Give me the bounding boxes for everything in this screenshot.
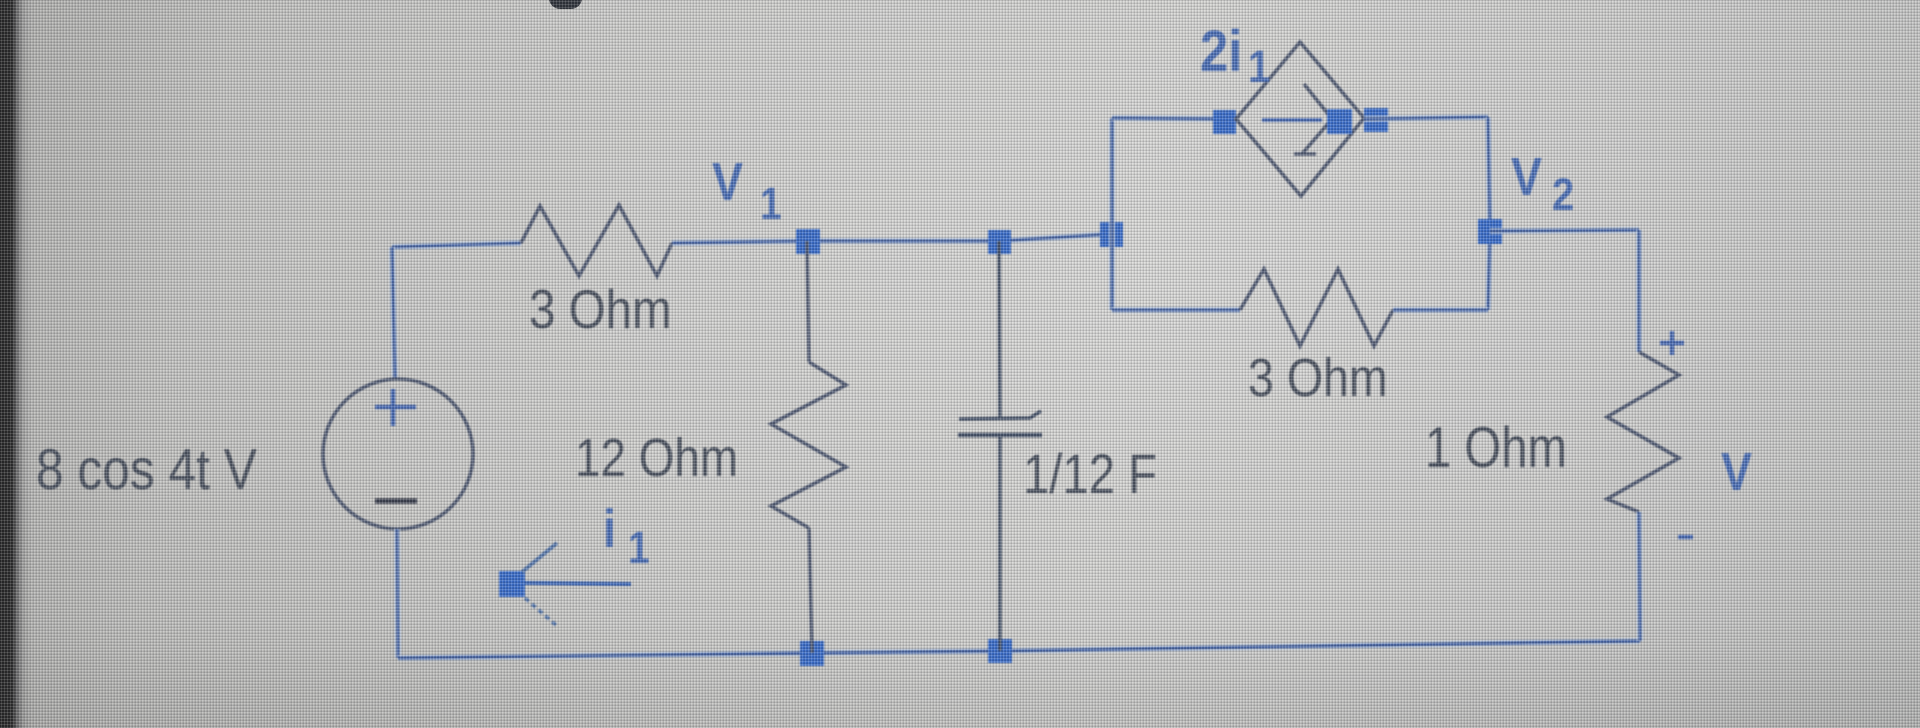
wire loop bottom rail right xyxy=(1393,307,1488,313)
wire loop top rail left xyxy=(1112,118,1236,119)
voltage source 8 cos 4t V xyxy=(323,379,473,529)
wire top horizontal V1 run xyxy=(672,234,1112,243)
label i1 xyxy=(603,498,650,573)
dark left screen edge xyxy=(0,0,32,728)
current arrow i1 xyxy=(499,543,631,626)
label 8 cos 4t V xyxy=(36,438,257,502)
node V1 xyxy=(796,229,820,254)
wire 12 Ohm bottom lead xyxy=(809,528,812,653)
node bottom capacitor xyxy=(988,639,1012,663)
wire capacitor bottom lead xyxy=(998,435,1001,651)
wire left vertical (source to bottom corner) xyxy=(397,529,398,658)
node bottom 12 Ohm xyxy=(800,641,824,666)
node capacitor top xyxy=(988,230,1011,254)
wire loop bottom rail left xyxy=(1112,307,1240,313)
capacitor 1/12 F xyxy=(958,411,1042,435)
node V2 xyxy=(1478,219,1502,244)
label V2 xyxy=(1511,146,1574,221)
wire 1 Ohm bottom lead xyxy=(1639,512,1640,641)
label V xyxy=(1721,441,1752,502)
wire loop top rail right xyxy=(1364,117,1488,119)
node diamond right A xyxy=(1327,109,1352,134)
resistor 3 Ohm right xyxy=(1240,269,1393,346)
label 2i1 xyxy=(1200,18,1270,93)
wire capacitor top lead xyxy=(999,241,1000,417)
label - (V polarity) xyxy=(1678,535,1693,539)
wire 12 Ohm top lead xyxy=(807,241,809,362)
wire V2 to right branch xyxy=(1490,230,1639,231)
wire left vertical (top corner to source) xyxy=(392,247,395,379)
node diamond left xyxy=(1213,110,1236,134)
resistor 12 Ohm xyxy=(771,362,846,528)
dark notch top edge xyxy=(549,0,582,9)
wire loop right vertical xyxy=(1488,117,1490,310)
label 1 Ohm xyxy=(1425,416,1567,480)
label 3 Ohm (top-left resistor) xyxy=(529,279,672,340)
node diamond right B xyxy=(1364,108,1388,132)
label 1/12 F xyxy=(1023,443,1157,505)
wire loop left vertical xyxy=(1109,118,1115,310)
node loop left xyxy=(1100,222,1123,247)
label 3 Ohm (right resistor) xyxy=(1248,347,1388,408)
wire 1 Ohm top lead xyxy=(1636,230,1642,352)
resistor 1 Ohm xyxy=(1607,352,1679,512)
label + (V polarity) xyxy=(1660,331,1684,355)
resistor 3 Ohm top-left xyxy=(521,205,672,276)
wire left-top horizontal (source to 3 Ohm) xyxy=(392,243,521,247)
label V1 xyxy=(712,151,782,229)
dependent source 2i1 (diamond) xyxy=(1236,42,1364,196)
label 12 Ohm xyxy=(575,427,738,487)
wire bottom run xyxy=(398,641,1640,658)
